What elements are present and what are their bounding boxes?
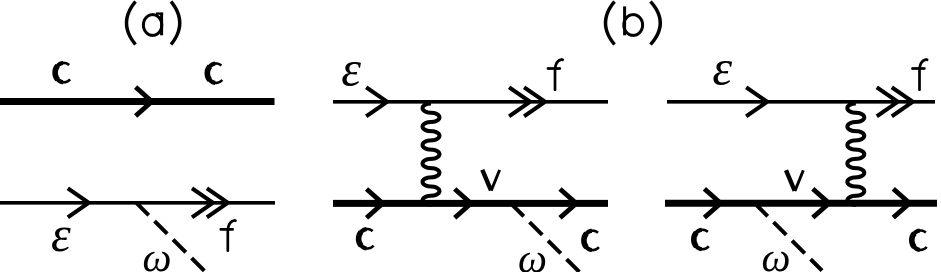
arrowhead 1 bottom b2 [704, 189, 720, 218]
photon wavy line b2 [847, 104, 864, 205]
svg-text:ω: ω [518, 235, 547, 272]
label f (a) [221, 220, 236, 250]
label c left (b1) [359, 229, 374, 248]
label c right (b2) [912, 231, 927, 250]
arrowhead double (a) [192, 188, 213, 217]
arrowhead 2 bottom b1 [455, 189, 471, 218]
svg-text:ε: ε [51, 206, 71, 262]
node label c left (a) [55, 63, 70, 82]
label (a) [127, 2, 180, 45]
svg-text:ε: ε [341, 40, 361, 96]
svg-text:ω: ω [143, 234, 172, 272]
arrowhead double top b2 [877, 87, 898, 116]
wire thick bottom line b1 [333, 200, 608, 207]
svg-text:ω: ω [762, 234, 791, 272]
label f (b1) [548, 59, 563, 89]
label c right (b1) [584, 231, 599, 250]
arrowhead 1 bottom b1 [367, 189, 383, 218]
wire thin top line b2 [667, 100, 935, 104]
dashed omega line (b1) [511, 204, 581, 272]
wire thin line a (electron line) [0, 201, 275, 205]
arrowhead 3 bottom b2 [893, 189, 909, 218]
node label c right (a) [207, 64, 222, 83]
arrowhead on thick line a [136, 87, 152, 116]
svg-text:ε: ε [712, 40, 732, 96]
arrowhead 3 bottom b1 [560, 189, 576, 218]
arrowhead top b2 [746, 87, 767, 116]
wire thin top line b1 [333, 100, 608, 104]
photon wavy line b1 [423, 104, 440, 205]
arrowhead 2 bottom b2 [813, 189, 829, 218]
label (b) [606, 2, 661, 45]
label v (b1) [482, 170, 499, 191]
label c left (b2) [694, 230, 709, 249]
arrowhead double top b1 [509, 87, 530, 116]
arrowhead single (a) [68, 188, 89, 217]
label f (b2) [913, 59, 928, 89]
label v (b2) [786, 170, 803, 191]
arrowhead top b1 [366, 87, 387, 116]
dashed omega line (a) [136, 203, 206, 272]
dashed omega line (b2) [755, 204, 822, 271]
wire thick bottom line b2 [665, 200, 937, 207]
wire thick line a (c line) [0, 98, 275, 105]
